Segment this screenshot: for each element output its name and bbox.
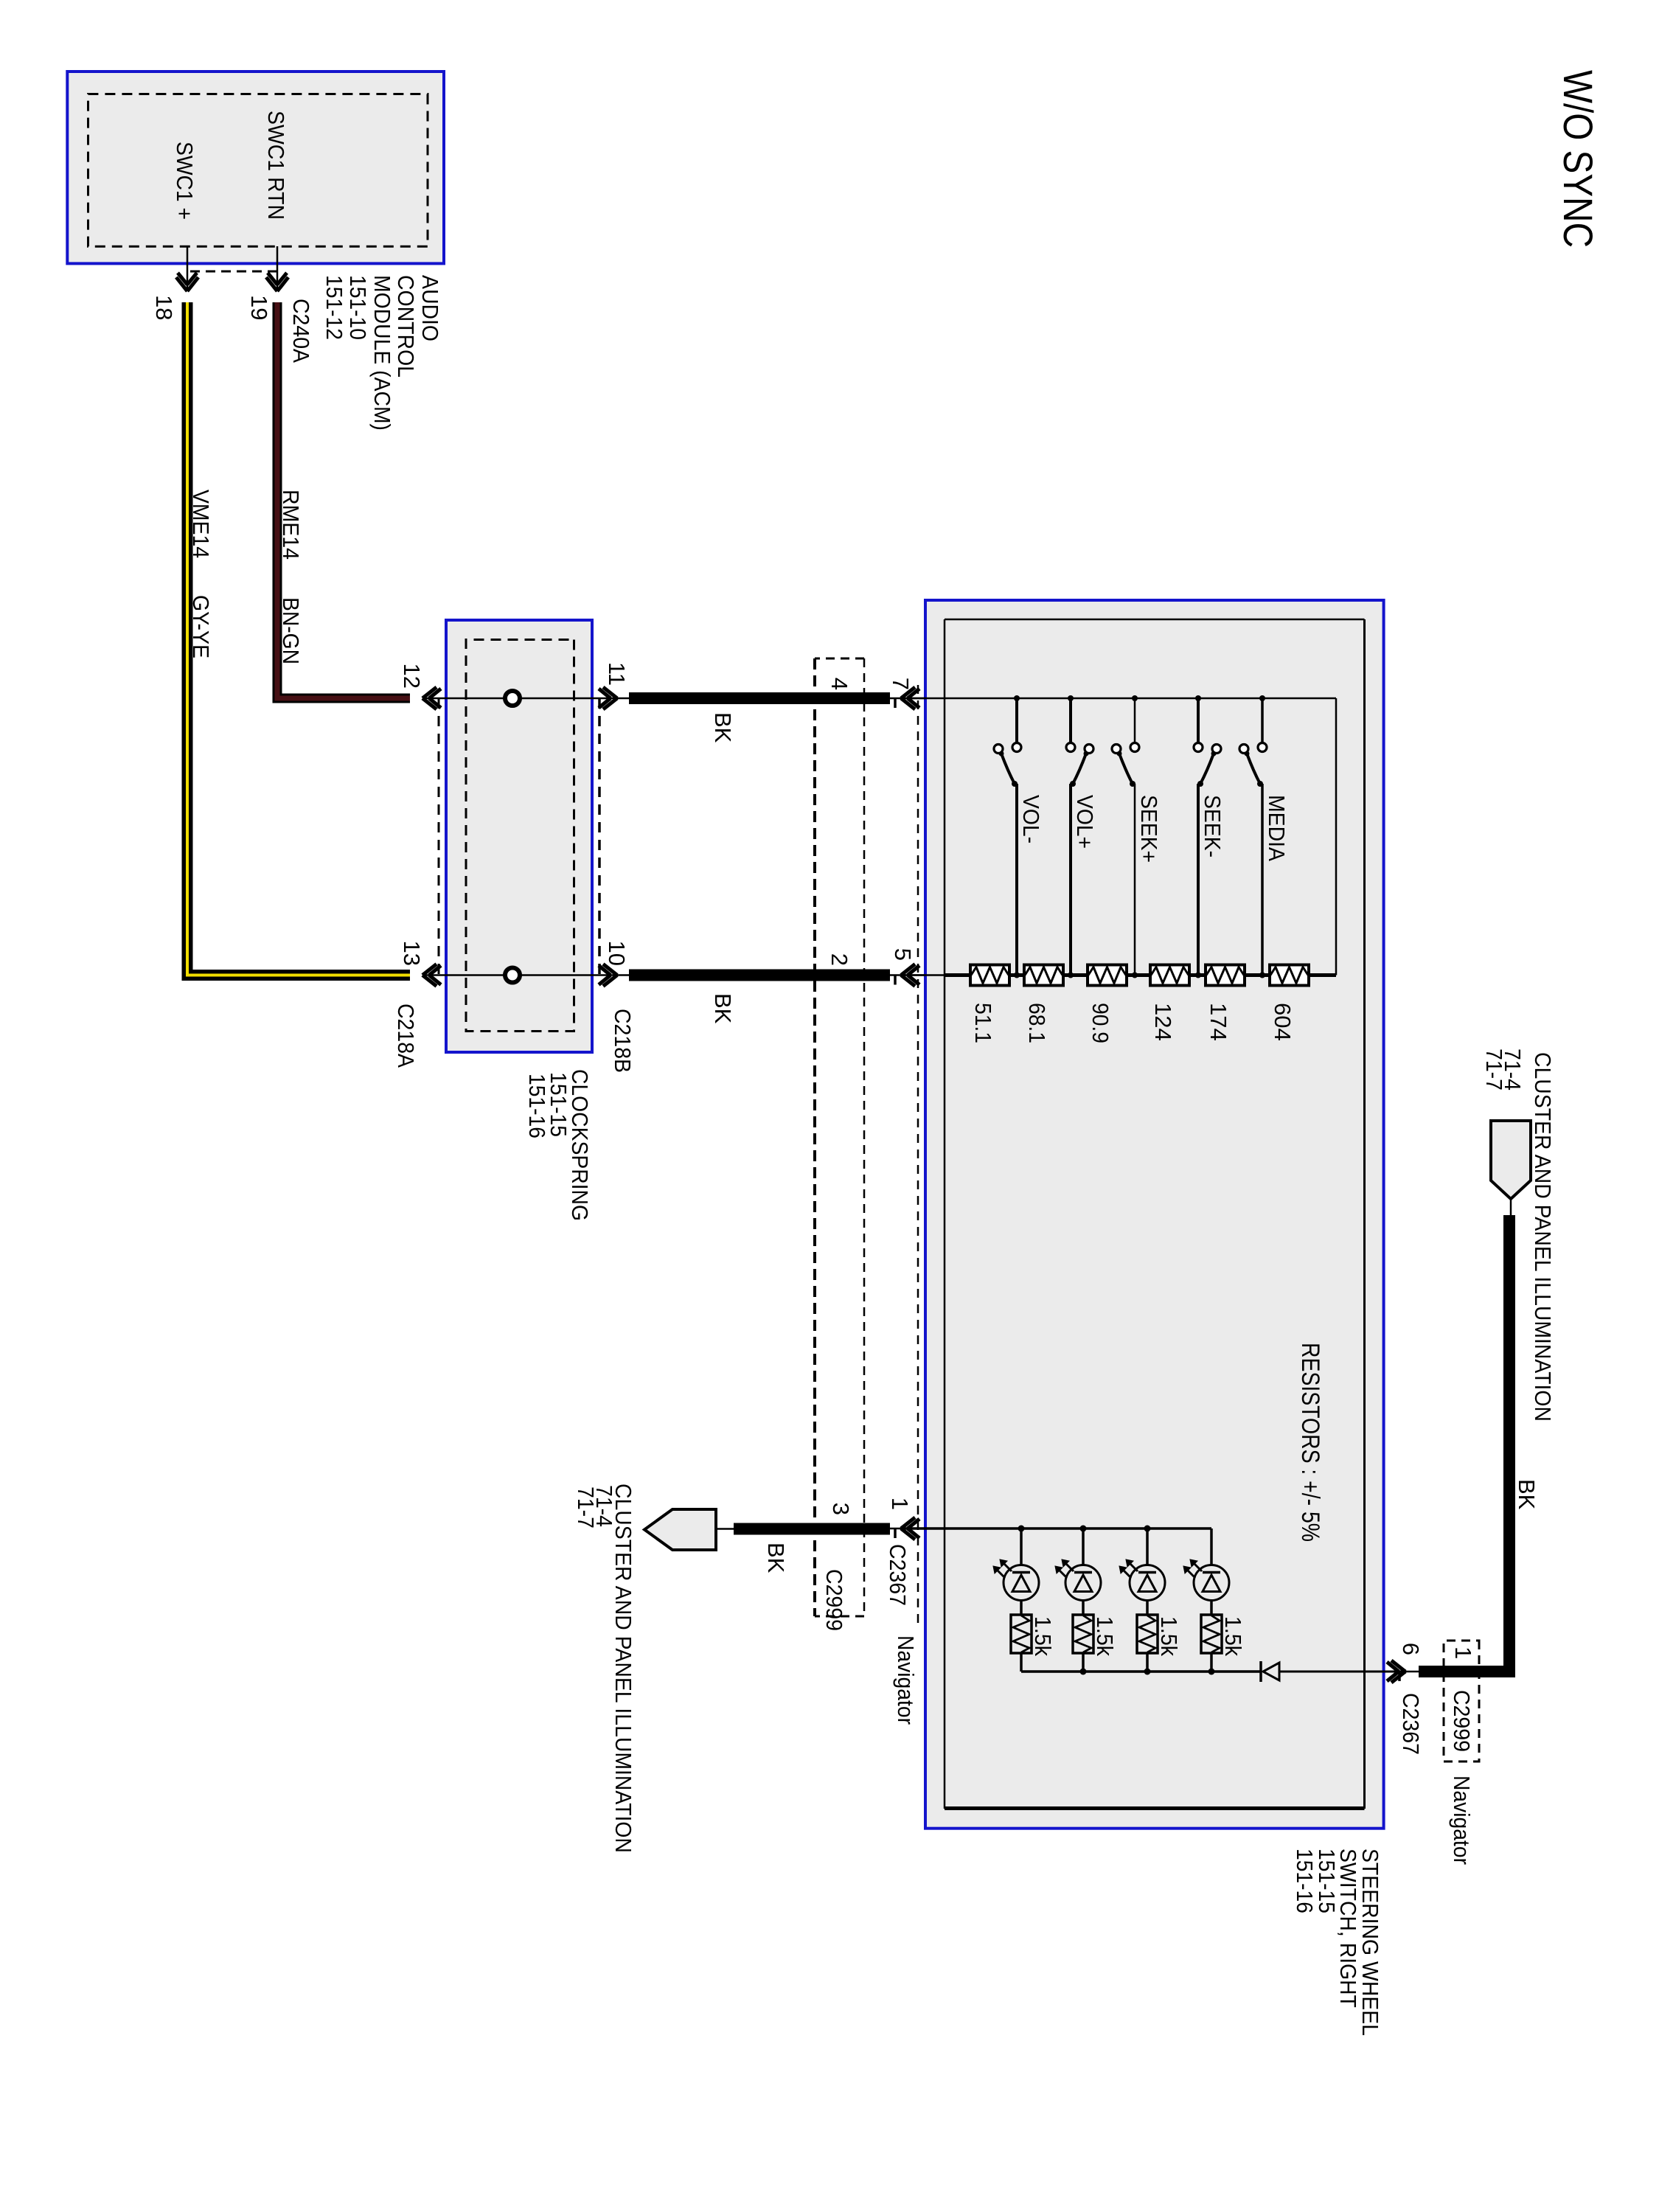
wire label BK (left): [710, 712, 736, 743]
wire diode to pin 6: [1279, 1671, 1405, 1673]
resistor 1.5k (branch 2): [1073, 1615, 1093, 1653]
LED D1: [993, 1559, 1039, 1601]
svg-text:2: 2: [827, 953, 852, 966]
resistor 124: [1150, 965, 1189, 986]
svg-text:CLUSTER AND PANEL ILLUMINATION: CLUSTER AND PANEL ILLUMINATION: [611, 1484, 636, 1853]
clockspring wire path 13-10: [422, 974, 630, 976]
connector C218B dashed bridge: [598, 698, 601, 975]
svg-text:VOL+: VOL+: [1072, 795, 1098, 849]
switch VOL-: [994, 695, 1021, 978]
resistor value 604: [1270, 1003, 1295, 1041]
pin number 19: [246, 295, 272, 320]
connector arrow pin 10: [599, 964, 617, 987]
resistor value 1.5k (branch 3): [1156, 1616, 1182, 1656]
label CLUSTER AND PANEL ILLUMINATION (bottom): [611, 1484, 636, 1853]
svg-text:C218A: C218A: [393, 1004, 419, 1068]
resistor value 1.5k (branch 2): [1092, 1616, 1118, 1656]
wire label RME14: [278, 490, 304, 560]
switch label VOL+: [1072, 795, 1098, 849]
svg-text:AUDIO: AUDIO: [417, 275, 443, 341]
svg-text:SEEK+: SEEK+: [1136, 795, 1162, 863]
svg-text:18: 18: [151, 295, 177, 320]
title: W/O SYNC: [1555, 70, 1601, 248]
pin number 7: [888, 678, 914, 690]
svg-text:1.5k: 1.5k: [1220, 1616, 1246, 1656]
svg-text:19: 19: [246, 295, 272, 320]
pin label SWC1 +: [172, 142, 198, 220]
page reference 71-4 (bottom): [591, 1485, 617, 1527]
wire label BK (bottom): [763, 1543, 789, 1573]
resistor 1.5k (branch 4): [1201, 1615, 1222, 1653]
connector C2999 dashed box (pins 4,2,3): [815, 658, 864, 1616]
connector C218A dashed bridge: [438, 698, 440, 975]
resistor value 51.1: [970, 1003, 996, 1043]
resistor value 1.5k (branch 1): [1030, 1616, 1056, 1656]
svg-text:1.5k: 1.5k: [1030, 1616, 1056, 1656]
wire stub pin 1: [890, 1528, 925, 1530]
connector C2367 dashed boundary line: [917, 685, 919, 1624]
clockspring coil symbol (left wire): [505, 691, 520, 706]
connector C218B label: [610, 1009, 636, 1073]
wire BK (pin 1 to cluster illumination): [734, 1523, 890, 1535]
svg-text:5: 5: [890, 948, 916, 961]
LED D2: [1055, 1559, 1101, 1601]
wire stub pin 19: [276, 246, 279, 291]
C2999 pin number 4: [827, 678, 852, 690]
resistor 68.1: [1024, 965, 1063, 986]
svg-text:68.1: 68.1: [1024, 1003, 1050, 1043]
wire stub pin 6: [1384, 1671, 1421, 1673]
C2999 location label Navigator (right): [1449, 1775, 1475, 1865]
wire label BK (right): [710, 993, 736, 1024]
connector C2999 dashed box (pin 1, right): [1444, 1641, 1479, 1761]
pin label SWC1 RTN: [263, 111, 289, 220]
page reference 71-4 (top): [1500, 1048, 1526, 1091]
pin number 18: [151, 295, 177, 320]
svg-text:BK: BK: [710, 712, 736, 743]
pin number 10: [604, 941, 630, 966]
svg-text:151-15: 151-15: [1314, 1848, 1340, 1913]
pin number 5: [890, 948, 916, 961]
wire stub pin 7: [890, 698, 925, 700]
resistor 1.5k (branch 3): [1137, 1615, 1158, 1653]
LED D4: [1183, 1559, 1229, 1601]
module label AUDIO CONTROL MODULE (ACM) 151-10 151-12: [321, 275, 443, 431]
clockspring internal dashed boundary: [466, 640, 574, 1032]
resistor value 90.9: [1088, 1003, 1113, 1043]
top link wire: [1335, 698, 1338, 975]
switch label VOL-: [1018, 795, 1044, 844]
svg-text:151-16: 151-16: [524, 1074, 550, 1138]
svg-text:1.5k: 1.5k: [1156, 1616, 1182, 1656]
resistor value 174: [1206, 1003, 1231, 1041]
svg-text:51.1: 51.1: [970, 1003, 996, 1043]
pin number 13: [399, 941, 425, 966]
svg-text:C2999: C2999: [821, 1569, 847, 1631]
ACM internal dashed boundary: [88, 94, 428, 247]
svg-text:11: 11: [604, 662, 630, 686]
svg-text:C2367: C2367: [885, 1544, 911, 1606]
off-page connector (cluster and panel illumination, output): [644, 1509, 716, 1550]
wire stub pentagon to BK wire: [1510, 1199, 1512, 1218]
wire BK (pin 11 to pin 7): [629, 692, 890, 704]
steering wheel switch box: [925, 600, 1384, 1829]
connector C240A label: [288, 299, 314, 363]
wire VME14 GY-YE (pin 18 to clockspring pin 13): [187, 302, 410, 975]
switch VOL+: [1066, 695, 1093, 978]
connector arrow pin 13: [422, 964, 441, 987]
svg-text:12: 12: [399, 664, 425, 689]
svg-text:RESISTORS : +/- 5%: RESISTORS : +/- 5%: [1296, 1343, 1324, 1542]
svg-text:151-12: 151-12: [321, 275, 347, 340]
svg-text:SEEK-: SEEK-: [1200, 795, 1225, 858]
off-page connector (cluster and panel illumination, source): [1491, 1121, 1531, 1199]
wire label BK (top right): [1514, 1479, 1540, 1510]
svg-text:SWC1 RTN: SWC1 RTN: [263, 111, 289, 220]
connector arrow pin 19: [266, 273, 288, 291]
svg-text:BK: BK: [763, 1543, 789, 1573]
connector arrow pin 12: [422, 687, 441, 709]
LED branch 4 wire: [1208, 1528, 1215, 1675]
LED bus (left): [901, 1527, 1211, 1530]
connector arrow pin 5: [895, 964, 919, 987]
resistor 174: [1206, 965, 1245, 986]
svg-text:STEERING WHEEL: STEERING WHEEL: [1357, 1848, 1383, 2036]
connector arrow pin 11: [599, 687, 617, 709]
clockspring label CLOCKSPRING 151-15 151-16: [524, 1069, 593, 1221]
svg-text:BN-GN: BN-GN: [278, 597, 304, 664]
svg-text:CONTROL: CONTROL: [393, 275, 419, 378]
C2999 pin number 1 (right): [1450, 1646, 1476, 1659]
switch label MEDIA: [1264, 795, 1290, 861]
connector arrow pin 7: [895, 687, 919, 709]
diode CR1: [1261, 1661, 1279, 1682]
wire stub to pentagon (bottom): [715, 1528, 734, 1530]
connector arrow pin 1: [895, 1517, 919, 1540]
wire BK (illumination feed to pin 6): [1419, 1215, 1509, 1672]
svg-text:6: 6: [1398, 1643, 1424, 1655]
connector C2367 label (pin 6): [1398, 1693, 1424, 1755]
svg-text:VME14: VME14: [188, 490, 214, 558]
svg-text:CLUSTER AND PANEL ILLUMINATION: CLUSTER AND PANEL ILLUMINATION: [1530, 1052, 1556, 1422]
box label STEERING WHEEL SWITCH, RIGHT 151-15 151-16: [1292, 1848, 1383, 2036]
wire BK (pin 10 to pin 5): [629, 970, 890, 981]
switch SEEK-: [1194, 695, 1221, 978]
resistor value 1.5k (branch 4): [1220, 1616, 1246, 1656]
svg-text:C2367: C2367: [1398, 1693, 1424, 1755]
connector C2999 label (right): [1449, 1690, 1475, 1752]
clockspring wire path 12-11: [422, 698, 630, 700]
switch SEEK+: [1112, 695, 1139, 978]
clockspring coil symbol (right wire): [505, 968, 520, 983]
pin number 11: [604, 662, 630, 686]
svg-text:MEDIA: MEDIA: [1264, 795, 1290, 861]
note RESISTORS : +/- 5%: [1296, 1343, 1324, 1542]
page reference 71-7 (top): [1481, 1048, 1507, 1091]
connector C2999 label: [821, 1569, 847, 1631]
wire color label GY-YE: [188, 595, 214, 658]
resistor value 68.1: [1024, 1003, 1050, 1043]
switch label SEEK+: [1136, 795, 1162, 863]
pin number 6: [1398, 1643, 1424, 1655]
svg-text:174: 174: [1206, 1003, 1231, 1041]
wire stub pin 18: [187, 246, 189, 291]
svg-text:151-16: 151-16: [1292, 1848, 1318, 1913]
svg-text:SWC1 +: SWC1 +: [172, 142, 198, 220]
LED branch 1 wire: [1018, 1526, 1025, 1672]
connector arrow pin 6: [1387, 1660, 1405, 1683]
svg-text:4: 4: [827, 678, 852, 690]
svg-text:Navigator: Navigator: [1449, 1775, 1475, 1865]
svg-text:71-7: 71-7: [1481, 1048, 1507, 1091]
svg-text:10: 10: [604, 941, 630, 966]
wire color label BN-GN: [278, 597, 304, 664]
svg-text:151-10: 151-10: [345, 275, 371, 340]
resistor 51.1: [970, 965, 1009, 986]
connector arrow pin 18: [176, 273, 198, 291]
wire label VME14: [188, 490, 214, 558]
svg-text:BK: BK: [710, 993, 736, 1024]
wire stub pin 5: [890, 974, 925, 976]
resistor ladder bus: [901, 973, 1336, 977]
svg-text:7: 7: [888, 678, 914, 690]
svg-text:90.9: 90.9: [1088, 1003, 1113, 1043]
pin number 12: [399, 664, 425, 689]
resistor value 124: [1150, 1003, 1176, 1041]
connector C218A label: [393, 1004, 419, 1068]
svg-text:GY-YE: GY-YE: [188, 595, 214, 658]
svg-text:C240A: C240A: [288, 299, 314, 363]
svg-text:1.5k: 1.5k: [1092, 1616, 1118, 1656]
svg-text:MODULE (ACM): MODULE (ACM): [369, 275, 395, 431]
switch MEDIA: [1239, 695, 1267, 978]
clockspring box: [446, 620, 592, 1052]
module box: Audio Control Module (ACM): [67, 72, 444, 263]
page reference 71-7 (bottom): [573, 1486, 599, 1528]
resistor 90.9: [1088, 965, 1127, 986]
svg-text:RME14: RME14: [278, 490, 304, 560]
svg-text:VOL-: VOL-: [1018, 795, 1044, 844]
svg-text:604: 604: [1270, 1003, 1295, 1041]
connector C240A dashed bridge: [187, 271, 277, 273]
svg-text:1: 1: [887, 1498, 913, 1510]
switch common bus (left): [901, 698, 1336, 700]
svg-text:1: 1: [1450, 1646, 1476, 1659]
svg-text:W/O SYNC: W/O SYNC: [1555, 70, 1601, 248]
svg-text:13: 13: [399, 941, 425, 966]
LED D3: [1119, 1559, 1165, 1601]
C2999 pin number 3: [828, 1503, 854, 1515]
LED branch 2 wire: [1080, 1526, 1087, 1675]
steering wheel switch inner box: [945, 619, 1365, 1809]
LED return bus: [1021, 1670, 1261, 1673]
svg-text:BK: BK: [1514, 1479, 1540, 1510]
svg-text:C2999: C2999: [1449, 1690, 1475, 1752]
C2999 pin number 2: [827, 953, 852, 966]
resistor 604: [1270, 965, 1309, 986]
switch label SEEK-: [1200, 795, 1225, 858]
svg-text:124: 124: [1150, 1003, 1176, 1041]
svg-text:Navigator: Navigator: [893, 1635, 919, 1725]
svg-text:3: 3: [828, 1503, 854, 1515]
wire RME14 BN-GN (pin 19 to clockspring pin 12): [277, 302, 410, 698]
connector C2367 label (pin 1): [885, 1544, 911, 1606]
pin number 1: [887, 1498, 913, 1510]
C2999 location label Navigator: [893, 1635, 919, 1725]
label CLUSTER AND PANEL ILLUMINATION (top): [1530, 1052, 1556, 1422]
svg-text:C218B: C218B: [610, 1009, 636, 1073]
resistor 1.5k (branch 1): [1011, 1615, 1032, 1653]
LED branch 3 wire: [1144, 1526, 1151, 1675]
svg-text:71-7: 71-7: [573, 1486, 599, 1528]
